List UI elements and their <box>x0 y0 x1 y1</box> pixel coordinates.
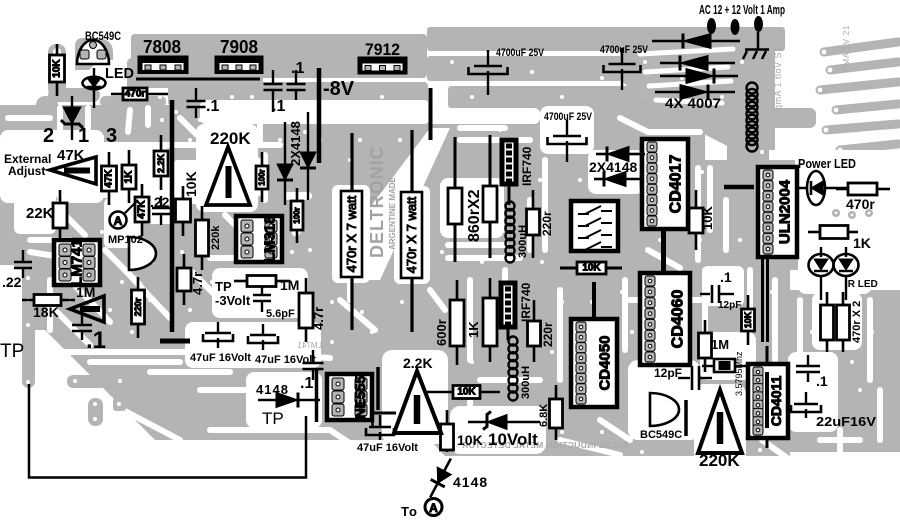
IC U5 CD4060 <box>640 273 690 365</box>
diode D 4007 b <box>660 56 735 71</box>
inductor L1 mains <box>747 83 758 152</box>
svg-text:2.2K: 2.2K <box>403 355 433 371</box>
svg-text:IR LED: IR LED <box>845 279 878 290</box>
LED IR pair <box>809 247 859 300</box>
2X4148 right pocket <box>588 150 644 194</box>
svg-text:10K: 10K <box>457 432 483 448</box>
wire 470rx7 lead b2 <box>410 278 413 332</box>
diode D 4007 d <box>655 85 735 100</box>
svg-text:.22: .22 <box>150 194 170 210</box>
svg-text:220K: 220K <box>210 129 251 148</box>
wire 2x4148 right vertical <box>640 143 643 188</box>
svg-text:DELTRONIC: DELTRONIC <box>367 145 387 258</box>
svg-text:47K: 47K <box>57 147 85 164</box>
svg-text:220r: 220r <box>540 211 554 236</box>
svg-text:LED: LED <box>105 66 134 82</box>
wire lead near BC549C bottom <box>684 400 688 436</box>
10Volt pocket <box>450 406 546 454</box>
wire NE555 left lead <box>315 369 319 422</box>
svg-text:10K: 10K <box>457 387 476 398</box>
capacitor C .1 b <box>264 70 283 112</box>
svg-text:470r X 2: 470r X 2 <box>851 301 863 343</box>
wire NE555 bottom lead <box>371 420 374 428</box>
svg-text:220r: 220r <box>133 297 143 316</box>
resistor R 860r a <box>448 188 462 224</box>
right lower mass <box>790 290 900 452</box>
capacitor C 5.6pF <box>253 286 271 312</box>
svg-text:2X4148: 2X4148 <box>589 159 637 175</box>
resistor R 4.7r b <box>299 278 313 342</box>
svg-text:470r X 7 watt: 470r X 7 watt <box>404 196 419 273</box>
svg-text:1M: 1M <box>76 284 95 300</box>
svg-text:4148: 4148 <box>453 474 488 490</box>
capacitor C .1 e <box>303 350 324 380</box>
svg-text:100r: 100r <box>258 169 267 185</box>
svg-text:4700uF 25V: 4700uF 25V <box>496 47 545 59</box>
middle-center mass <box>430 108 625 270</box>
svg-text:LM741: LM741 <box>69 239 86 286</box>
resistor R 220r c <box>528 300 541 362</box>
svg-text:1M: 1M <box>280 277 299 293</box>
trimpot P3 1M <box>70 296 104 322</box>
resistor R 470rx7 b <box>401 192 422 278</box>
svg-text:12pF: 12pF <box>654 366 682 380</box>
wire CD4011 internal <box>765 372 769 428</box>
wire 860r lead a1 <box>454 137 457 188</box>
svg-text:10K: 10K <box>700 206 715 230</box>
svg-text:4.7r: 4.7r <box>190 272 205 295</box>
right edge comb fingers <box>820 42 898 150</box>
capacitor C 47uF a <box>203 322 233 348</box>
capacitor C 4700uF c <box>548 120 587 162</box>
svg-text:47K: 47K <box>137 200 148 219</box>
misc white channels in middle-left mass <box>0 108 880 460</box>
svg-text:A: A <box>429 501 438 515</box>
svg-text:1K: 1K <box>124 170 135 184</box>
resistor R 470rx7 a <box>341 191 362 277</box>
wire 470rx7 lead a2 <box>350 277 353 330</box>
4700uF pocket <box>540 106 594 154</box>
svg-text:ULN2004: ULN2004 <box>777 179 794 244</box>
trimpot P5 220K b <box>698 390 742 453</box>
.1 / 22uF pocket right <box>788 352 838 432</box>
CD4017 column <box>620 105 705 270</box>
svg-text:10K: 10K <box>183 171 199 197</box>
svg-text:47uF 16Volt: 47uF 16Volt <box>357 442 418 454</box>
resistor R 1M a <box>234 276 290 287</box>
coil column down from rectifier <box>727 60 769 216</box>
switch block S1 <box>571 201 618 251</box>
wire CD4011 bottom lead <box>766 436 769 448</box>
resistor R 10K tl <box>50 44 65 96</box>
svg-text:3: 3 <box>106 125 117 147</box>
svg-text:10K: 10K <box>52 59 63 78</box>
diode D 4148 tp <box>258 393 320 408</box>
svg-text:PULSE INDUCTION METAL DETECTOR: PULSE INDUCTION METAL DETECTOR <box>462 440 629 450</box>
svg-text:BC549C: BC549C <box>640 429 682 441</box>
lower-center mass <box>430 265 790 456</box>
svg-text:BC549C: BC549C <box>85 29 121 43</box>
BC549C bottom pocket <box>628 360 700 440</box>
IC U2 LM318 <box>236 216 282 263</box>
scattered pads in white areas (bottom-left) <box>22 270 129 426</box>
svg-text:-8V: -8V <box>323 78 355 100</box>
220K triangle pocket <box>196 124 258 212</box>
IC U1 LM741 <box>54 239 100 286</box>
transistor Q IRF740 a <box>500 138 518 186</box>
resistor R 18K <box>22 295 75 306</box>
resistor R 1M b <box>699 320 712 372</box>
wire 10K top lead row <box>560 267 622 270</box>
resistor R 22K <box>53 190 67 242</box>
resistor R 470r r <box>836 183 890 195</box>
470rX7 pockets + diagonal channel <box>338 128 450 280</box>
resistor R 10K d <box>689 190 703 250</box>
wire CD4050 vertical <box>592 282 596 368</box>
trimpot P4 2.2K <box>394 371 441 433</box>
capacitor C .22 b <box>14 250 32 278</box>
svg-text:4700uF 25V: 4700uF 25V <box>600 44 649 56</box>
ground symbol <box>743 32 769 59</box>
wire ground loop <box>29 384 306 478</box>
lower-left channels <box>47 280 53 330</box>
svg-text:-3Volt: -3Volt <box>215 293 251 308</box>
diode D 2x4148 d <box>594 172 643 187</box>
capacitor C 4700uF a <box>469 50 508 95</box>
svg-text:.1: .1 <box>300 375 313 392</box>
svg-text:LM318: LM318 <box>262 216 279 263</box>
capacitor C 47uF c <box>366 415 394 440</box>
wire 470rx7 lead b1 <box>410 130 413 192</box>
top high band center <box>427 27 785 51</box>
top band behind 78xx regulators <box>131 34 427 78</box>
svg-text:100r: 100r <box>293 207 302 223</box>
resistor R 600r <box>450 280 464 365</box>
diode D 4007 c <box>660 69 738 84</box>
IC U3 NE555 <box>327 374 372 420</box>
diode D 2x4148 b <box>300 112 316 200</box>
wire IRF740 top lead <box>508 186 511 205</box>
wire ULN lead b <box>766 254 769 342</box>
svg-text:2X4148: 2X4148 <box>288 121 303 166</box>
resistor R 220r b <box>527 190 540 258</box>
IC U8 ULN2004 <box>758 167 797 257</box>
LED1 <box>83 68 106 108</box>
diode D 4148 bottom <box>423 455 458 501</box>
transistor Q2 MP102 <box>129 237 156 270</box>
svg-text:470r X 7 watt: 470r X 7 watt <box>344 195 359 272</box>
wire 860r lead b1 <box>489 135 492 186</box>
svg-text:5.6pF: 5.6pF <box>266 308 295 320</box>
wire left long vertical <box>170 100 175 332</box>
svg-text:TP: TP <box>262 409 284 428</box>
svg-text:.1: .1 <box>206 98 219 115</box>
around 1M / TP-3volt / 5.6pF <box>212 268 308 318</box>
svg-text:6.8K: 6.8K <box>538 404 550 427</box>
svg-text:470r: 470r <box>125 89 146 100</box>
lower-left mass <box>0 265 430 440</box>
transistor Q1 BC549C <box>77 40 109 64</box>
LED power <box>797 171 848 205</box>
svg-text:220k: 220k <box>210 225 222 250</box>
svg-text:Power LED: Power LED <box>798 157 856 171</box>
svg-text:1: 1 <box>78 125 89 147</box>
wire 860r lead a2 <box>454 224 457 262</box>
trimpot P1 220K <box>206 147 250 205</box>
power led / 470r / 1K pocket <box>795 150 900 262</box>
capacitor C .22 a <box>152 196 170 225</box>
resistor R 4.7r a <box>177 254 191 305</box>
svg-text:CD4011: CD4011 <box>768 375 784 426</box>
svg-text:TP: TP <box>215 279 232 294</box>
svg-text:AC 12 + 12 Volt 1 Amp: AC 12 + 12 Volt 1 Amp <box>699 2 785 17</box>
resistor R 470r tl <box>111 88 168 100</box>
svg-text:IRF740: IRF740 <box>519 282 533 322</box>
resistor R 10K f <box>427 386 500 399</box>
wire CD4017-CD4060 vertical <box>661 168 666 320</box>
svg-text:3.5795Mhz: 3.5795Mhz <box>734 351 744 396</box>
resistor R 100r a <box>256 152 268 202</box>
IC U4 CD4017 <box>642 139 688 229</box>
inductor L2 300uH <box>506 202 515 263</box>
capacitor C 12pF right <box>678 366 712 390</box>
capacitor C .1 c <box>187 88 206 118</box>
47uF row pocket <box>185 322 321 368</box>
wire 470rx7 lead a1 <box>350 133 353 191</box>
white cutouts <box>0 49 900 466</box>
svg-text:To: To <box>401 504 418 519</box>
white band left edge above TP strip <box>0 268 22 393</box>
2.2K triangle pocket <box>382 350 448 444</box>
svg-text:.22: .22 <box>2 274 22 290</box>
resistor R 10K b <box>176 186 191 236</box>
wire triangle to NE555 <box>372 412 396 415</box>
svg-text:300uH: 300uH <box>517 225 529 258</box>
resistor R 2.2K a <box>154 135 168 190</box>
svg-text:2.2K: 2.2K <box>156 153 166 173</box>
IC U6 CD4050 <box>571 319 617 407</box>
svg-text:MP102: MP102 <box>108 234 143 246</box>
svg-text:4.7r: 4.7r <box>311 307 326 330</box>
resistor R 100r b <box>291 188 303 243</box>
svg-text:A: A <box>114 214 123 228</box>
svg-text:47uF 16Volt: 47uF 16Volt <box>190 352 251 364</box>
voltage regulator 7808 <box>138 56 188 74</box>
resistor R 47K b <box>135 184 149 236</box>
resistor R 220r a <box>132 277 145 338</box>
capacitor C 4700uF b <box>604 48 641 90</box>
middle-left big mass <box>0 105 430 265</box>
diode D 4007 a <box>652 34 740 49</box>
svg-text:47uF 16Volt: 47uF 16Volt <box>255 354 316 366</box>
svg-text:22uF16V: 22uF16V <box>816 415 877 429</box>
svg-text:860rX2: 860rX2 <box>466 189 483 242</box>
svg-text:18K: 18K <box>33 304 59 320</box>
right of CD4017 to ULN area <box>690 160 805 270</box>
svg-text:.1: .1 <box>816 373 828 389</box>
crystal X1 3.5795Mhz <box>702 359 748 372</box>
svg-text:220K: 220K <box>699 451 740 470</box>
resistor R 1K a <box>122 150 136 203</box>
resistor R 10K c <box>441 410 454 452</box>
resistor pockets middle-left <box>97 148 173 198</box>
capacitor C .1 right <box>700 285 734 303</box>
crystal pocket <box>700 332 756 380</box>
resistor R 1K r <box>808 226 858 239</box>
lower-center channels <box>467 280 473 360</box>
wire IRF740 bot lead <box>507 325 510 340</box>
svg-text:220r: 220r <box>541 322 555 347</box>
pads near 470r right <box>832 209 873 219</box>
860rX2 pocket <box>440 178 504 238</box>
diode D zener 10V <box>468 412 540 430</box>
svg-text:2: 2 <box>43 125 54 147</box>
svg-text:CD4050: CD4050 <box>597 335 614 390</box>
voltage regulator 7908 <box>215 56 263 74</box>
svg-text:PMA 1V 21: PMA 1V 21 <box>841 25 851 72</box>
inductor L3 300uH <box>509 337 518 401</box>
IC U7 CD4011 <box>748 364 788 438</box>
gray mirrored silkscreen texts <box>55 145 628 450</box>
wire ULN lead a <box>761 254 764 342</box>
capacitor C 47uF b <box>248 324 278 350</box>
external adjust pocket <box>0 130 104 203</box>
svg-text:10Volt: 10Volt <box>488 430 538 449</box>
wire bus under regulators <box>136 78 260 81</box>
svg-text:.1: .1 <box>291 60 304 77</box>
diode D 2x4148 a <box>277 122 293 205</box>
transistor Q IRF740 b <box>499 281 517 329</box>
svg-text:.1: .1 <box>86 327 106 354</box>
resistor R 470rx2 b <box>837 292 850 352</box>
svg-text:7908: 7908 <box>220 37 258 57</box>
capacitor C .1 f <box>796 355 820 382</box>
4148 TP NE555 pocket <box>246 372 322 428</box>
svg-text:LM741: LM741 <box>297 341 322 350</box>
470r x2 pocket <box>812 292 862 350</box>
capacitor C .1 a <box>287 70 306 100</box>
svg-text:IRF740: IRF740 <box>520 146 534 186</box>
svg-text:1K: 1K <box>853 235 871 251</box>
rectifier area channels <box>640 49 733 103</box>
svg-text:4X 4007: 4X 4007 <box>665 95 721 111</box>
svg-text:600r: 600r <box>434 319 449 346</box>
resistor R 860r b <box>483 186 497 222</box>
svg-text:7912: 7912 <box>365 40 400 59</box>
svg-text:12pF: 12pF <box>718 300 741 311</box>
svg-text:470r: 470r <box>846 196 875 212</box>
svg-text:300uH: 300uH <box>520 366 532 399</box>
svg-text:ARGENTINE MADE: ARGENTINE MADE <box>388 176 397 250</box>
svg-text:22K: 22K <box>26 205 54 222</box>
diode / rectifier area <box>620 28 775 108</box>
svg-text:1K: 1K <box>466 321 481 338</box>
capacitor C 22uF <box>791 392 821 418</box>
svg-text:Adjust: Adjust <box>8 164 45 178</box>
svg-text:.1: .1 <box>272 98 285 115</box>
wire CD4017 output lead <box>724 185 754 190</box>
resistor R 1K b <box>483 278 497 362</box>
svg-text:4700uF 25V: 4700uF 25V <box>544 111 593 123</box>
resistor R 220k <box>196 206 209 270</box>
diode zener D1 <box>61 96 83 140</box>
resistor R 6.8K <box>550 385 563 440</box>
svg-text:CD4060: CD4060 <box>670 290 687 349</box>
wire vertical -8V bus <box>317 68 322 163</box>
resistor R 10K g <box>577 262 606 274</box>
transistor Q3 BC549C <box>650 393 679 426</box>
wire CD4011 top lead <box>766 346 769 366</box>
resistor R 470rx2 a <box>821 292 834 352</box>
svg-text:TP: TP <box>0 341 24 362</box>
diode D 2x4148 c <box>596 147 645 162</box>
svg-text:.1: .1 <box>720 269 732 285</box>
top-left small traces <box>75 38 113 70</box>
wire NE555 right lead <box>376 367 380 410</box>
IR led pocket <box>798 248 872 294</box>
220K triangle pocket bottom <box>694 384 746 466</box>
AC input terminals <box>708 17 763 35</box>
white corner bottom-left of big mass <box>0 330 132 440</box>
svg-text:CD4017: CD4017 <box>668 155 685 214</box>
svg-text:1M: 1M <box>711 337 729 352</box>
svg-text:NE555: NE555 <box>352 375 368 418</box>
resistor R 10K e <box>742 295 755 345</box>
trimpot P2 47K ext <box>50 157 96 184</box>
svg-text:10K: 10K <box>743 311 753 328</box>
capacitor C .1 d <box>72 314 92 340</box>
svg-text:10K: 10K <box>582 263 601 274</box>
wire 860r lead b2 <box>489 222 492 258</box>
wire vertical right of -8V <box>429 88 433 140</box>
svg-text:qmA 1 tloV S1: qmA 1 tloV S1 <box>773 46 783 110</box>
svg-text:4148: 4148 <box>256 382 289 397</box>
resistor R 47K a <box>102 152 117 205</box>
node A left <box>110 200 139 229</box>
svg-text:47K: 47K <box>104 169 115 188</box>
svg-text:7808: 7808 <box>143 37 181 57</box>
node A bottom <box>425 499 442 516</box>
wire test point bar <box>160 339 190 344</box>
voltage regulator 7912 <box>358 57 407 74</box>
